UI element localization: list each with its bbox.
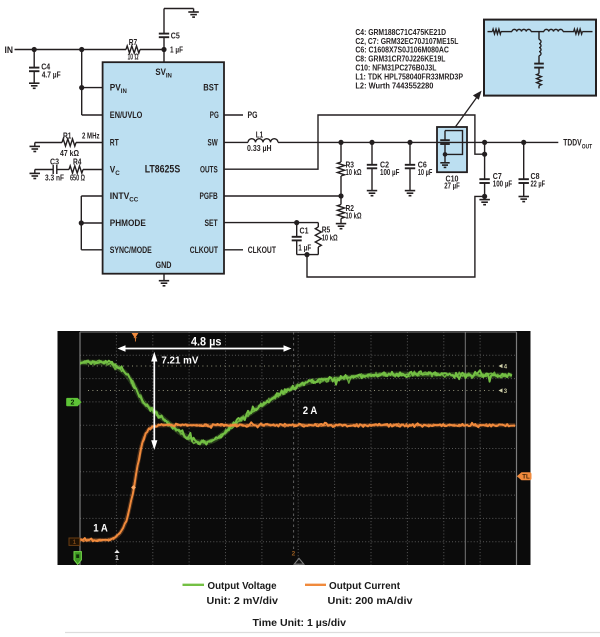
svg-text:R4: R4 [73, 157, 82, 167]
svg-text:10 kΩ: 10 kΩ [346, 167, 362, 177]
svg-text:3.3 nF: 3.3 nF [45, 173, 64, 183]
svg-text:2: 2 [71, 400, 75, 407]
oscilloscope screen background [58, 331, 531, 565]
svg-text:100 µF: 100 µF [380, 167, 399, 177]
wire PG [224, 114, 243, 116]
wire SET remote sense return [307, 196, 485, 277]
svg-text:C8: GRM31CR70J226KE19L: C8: GRM31CR70J226KE19L [355, 55, 445, 64]
svg-text:C4: GRM188C71C475KE21D: C4: GRM188C71C475KE21D [355, 28, 446, 37]
wire INTVCC/PHMODE/SYNC tie [79, 196, 103, 250]
pin PGFB [200, 191, 219, 201]
channel 1 dim marker left [69, 538, 80, 546]
trigger time dashed cursor [293, 332, 295, 549]
inset series resistor left [488, 29, 513, 34]
inset series resistor right [574, 29, 593, 34]
legend time unit [253, 618, 347, 629]
ground under C8 [519, 197, 530, 202]
bottom divider [65, 632, 600, 634]
svg-text:PGFB: PGFB [200, 191, 219, 201]
junction SVIN/C5 [161, 44, 183, 54]
svg-text:Time Unit: 1 µs/div: Time Unit: 1 µs/div [253, 618, 347, 629]
trigger T marker top [132, 333, 139, 344]
svg-text:C3: C3 [50, 157, 59, 167]
inset shunt capacitor [534, 64, 544, 74]
orange trace output current [80, 422, 515, 541]
junction C4 [32, 47, 37, 52]
pin SET [205, 218, 219, 228]
wire C5 to ground [164, 9, 194, 12]
wire RT [35, 142, 103, 144]
capacitor C3 [35, 157, 64, 183]
junction OUTS sense [482, 152, 487, 157]
svg-text:Output Current: Output Current [329, 581, 401, 592]
wire to PVIN and EN/UVLO [79, 50, 103, 116]
junction C8 [521, 140, 526, 145]
wire SET [224, 222, 318, 224]
svg-text:PG: PG [248, 110, 258, 120]
svg-text:PG: PG [210, 110, 219, 120]
ground under C7 [479, 196, 490, 204]
svg-text:SYNC/MODE: SYNC/MODE [110, 245, 152, 255]
svg-text:TL: TL [522, 475, 530, 481]
junction PGFB divider [338, 193, 343, 198]
svg-text:C1: C1 [300, 225, 309, 235]
capacitor C4 [29, 50, 61, 83]
pin VC [110, 165, 121, 177]
pin PVIN [110, 83, 128, 95]
svg-text:T: T [134, 338, 138, 344]
pin SVIN [155, 67, 172, 79]
junction C1 top [294, 220, 299, 225]
annotation 1 A [93, 523, 108, 535]
svg-text:PHMODE: PHMODE [110, 218, 146, 228]
wire SVIN [163, 50, 165, 63]
ground VC network [30, 170, 41, 179]
svg-text:27 µF: 27 µF [444, 181, 460, 191]
C10 equivalent circuit inset box [484, 20, 596, 96]
ground under C6 [405, 191, 415, 196]
junction R3 top [338, 140, 343, 145]
junction C7 bottom [482, 194, 487, 199]
svg-text:OUT: OUT [582, 144, 593, 151]
svg-text:OUTS: OUTS [200, 164, 218, 174]
resistor R2 [337, 196, 361, 223]
annotation 7.21 mV arrow [151, 352, 198, 450]
arrow C10 to inset [456, 91, 482, 127]
svg-text:R7: R7 [129, 37, 138, 47]
svg-text:Output Voltage: Output Voltage [208, 581, 277, 592]
svg-text:LT8625S: LT8625S [145, 164, 181, 176]
svg-text:CC: CC [129, 196, 139, 203]
svg-text:10 kΩ: 10 kΩ [322, 233, 338, 243]
junction output rail after C10 [482, 140, 487, 145]
svg-text:2 MHz: 2 MHz [82, 131, 100, 141]
pin RT [110, 138, 119, 148]
svg-text:1 A: 1 A [93, 523, 108, 535]
pin SYNC/MODE [110, 245, 152, 255]
resistor R5 [315, 223, 338, 255]
wire R7 to SVIN node [140, 49, 164, 51]
svg-text:CLKOUT: CLKOUT [248, 245, 277, 255]
annotation 2 A [303, 405, 318, 417]
node TDDVOUT [563, 138, 592, 151]
svg-text:L1: TDK HPL758040FR33MRD3P: L1: TDK HPL758040FR33MRD3P [355, 72, 463, 81]
oscilloscope grid [80, 332, 517, 565]
svg-text:R1: R1 [63, 131, 72, 141]
pin INTVCC [110, 191, 139, 203]
channel 2 ground marker left [66, 398, 81, 407]
svg-text:4.7 µF: 4.7 µF [42, 69, 61, 79]
orange trace point marker [131, 485, 136, 490]
capacitor C2 [367, 142, 400, 190]
wire SW [224, 141, 248, 143]
inset shunt resistor [537, 74, 542, 89]
pin GND [156, 260, 172, 270]
svg-text:IN: IN [121, 88, 128, 95]
svg-text:GND: GND [156, 260, 172, 270]
wire output rail [278, 141, 558, 143]
green trace output voltage [80, 360, 512, 445]
channel 3 reference dotted line [88, 388, 508, 395]
junction C2 [369, 140, 374, 145]
svg-text:10 Ω: 10 Ω [128, 52, 139, 62]
svg-text:100 µF: 100 µF [493, 179, 512, 189]
capacitor C7 [479, 142, 512, 196]
wire IN to R7 [15, 49, 127, 51]
svg-text:1: 1 [115, 555, 119, 562]
capacitor C6 [405, 142, 433, 190]
svg-text:IN: IN [166, 72, 173, 79]
ground under C4 [29, 83, 40, 88]
svg-text:Unit: 2 mV/div: Unit: 2 mV/div [207, 596, 279, 607]
pin CLKOUT inside [190, 245, 219, 255]
pin PG [210, 110, 219, 120]
svg-text:IN: IN [5, 45, 14, 55]
pin BST [203, 83, 219, 93]
svg-text:1 µF: 1 µF [170, 44, 183, 54]
svg-text:C: C [115, 170, 120, 177]
legend output current [305, 581, 413, 607]
inset series inductor left [512, 29, 544, 31]
svg-text:RT: RT [110, 138, 119, 148]
svg-text:C10: NFM31PC276B0J3L: C10: NFM31PC276B0J3L [355, 64, 436, 73]
resistor R4 [57, 157, 103, 183]
svg-text:SET: SET [205, 218, 219, 228]
svg-text:CLKOUT: CLKOUT [190, 245, 219, 255]
wire C1/R5 bottom [297, 254, 319, 256]
trigger level TL marker right [517, 472, 532, 480]
capacitor C1 [292, 223, 312, 255]
ground RT network [30, 143, 41, 152]
channel 4 reference dotted line [88, 364, 508, 371]
delay reference marker bottom [292, 551, 304, 565]
inductor L1 [247, 130, 278, 154]
svg-text:4.8 µs: 4.8 µs [191, 334, 222, 348]
svg-text:22 µF: 22 µF [531, 179, 546, 189]
capacitor C5 [159, 9, 180, 50]
wire GND pin [163, 274, 165, 281]
digital marker bottom left [74, 552, 81, 565]
node PG [248, 110, 258, 120]
svg-text:7.21 mV: 7.21 mV [161, 355, 198, 367]
svg-text:SW: SW [208, 138, 219, 148]
component notes list [355, 28, 463, 90]
ground under IC [159, 281, 169, 286]
label 2 MHz [82, 131, 100, 141]
ground above IC (C5) [188, 12, 199, 17]
op-amp U1 LT8625S body [103, 62, 224, 274]
cursor line B [464, 332, 466, 565]
pin SW [208, 138, 219, 148]
svg-text:SV: SV [155, 67, 166, 77]
svg-text:L1: L1 [256, 130, 264, 140]
junction sense bottom [304, 252, 309, 257]
node IN [5, 45, 14, 55]
inset shunt inductor [539, 32, 541, 64]
node CLKOUT [248, 245, 277, 255]
svg-text:650 Ω: 650 Ω [70, 173, 85, 183]
inset series inductor right [544, 29, 574, 31]
svg-text:0.33 µH: 0.33 µH [247, 143, 272, 153]
svg-text:PV: PV [110, 83, 121, 93]
annotation 4.8 us arrow [118, 334, 292, 351]
ground under C2 [367, 191, 377, 196]
svg-text:2 A: 2 A [303, 405, 318, 417]
svg-text:10 µF: 10 µF [418, 167, 433, 177]
svg-text:TDDV: TDDV [563, 138, 581, 148]
svg-text:2: 2 [292, 551, 296, 558]
wire PGFB [224, 195, 341, 197]
pin OUTS [200, 164, 218, 174]
svg-text:L2: Wurth 7443552280: L2: Wurth 7443552280 [355, 81, 434, 90]
svg-text:BST: BST [203, 83, 219, 93]
svg-text:C5: C5 [171, 30, 180, 40]
svg-text:C6: C1608X7S0J106M080AC: C6: C1608X7S0J106M080AC [355, 46, 449, 55]
trigger source 1 marker bottom [114, 550, 119, 562]
wire CLKOUT [224, 249, 243, 251]
wire OUTS sense loop [224, 115, 485, 169]
pin EN/UVLO [110, 110, 143, 120]
resistor R1 [60, 131, 79, 159]
svg-text:EN/UVLO: EN/UVLO [110, 110, 143, 120]
svg-text:INTV: INTV [110, 191, 130, 201]
junction C6 [407, 140, 412, 145]
svg-text:1 µF: 1 µF [298, 243, 311, 253]
capacitor C10 feedthrough (highlighted) [437, 127, 467, 191]
junction PVIN branch [79, 47, 84, 52]
svg-text:10 kΩ: 10 kΩ [346, 211, 362, 221]
svg-text:Unit: 200 mA/div: Unit: 200 mA/div [328, 596, 413, 607]
resistor R7 [126, 37, 140, 62]
svg-text:C2, C7: GRM32EC70J107ME15L: C2, C7: GRM32EC70J107ME15L [355, 37, 458, 46]
legend output voltage [183, 581, 279, 607]
ground under R2 [336, 224, 346, 229]
resistor R3 [337, 142, 361, 196]
pin PHMODE [110, 218, 146, 228]
capacitor C8 [519, 142, 546, 196]
